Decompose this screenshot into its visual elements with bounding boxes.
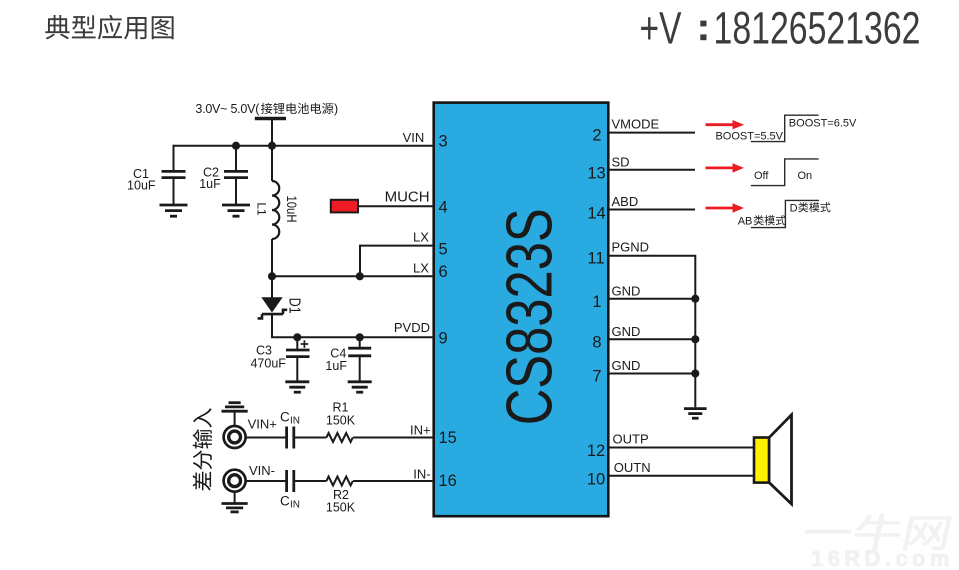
- wire LX pin6: [272, 275, 434, 277]
- svg-text:BOOST=5.5V: BOOST=5.5V: [715, 130, 783, 142]
- svg-text:VMODE: VMODE: [612, 117, 660, 132]
- pin labels left: [385, 130, 431, 481]
- label C2 1uF: [199, 166, 221, 192]
- connector VIN+: [224, 426, 246, 448]
- svg-text:5: 5: [439, 241, 448, 259]
- svg-text:12: 12: [587, 442, 605, 460]
- capacitor CIN bottom: [287, 470, 294, 492]
- wire power drop: [271, 119, 273, 146]
- wire GND pin8: [608, 338, 695, 340]
- junction dot C2/VIN: [232, 142, 240, 150]
- svg-text:18126521362: 18126521362: [714, 4, 921, 54]
- waveform ABD step: [751, 200, 819, 227]
- svg-text:VIN-: VIN-: [249, 463, 275, 478]
- svg-text:8: 8: [592, 334, 601, 352]
- wire PGND: [608, 256, 695, 407]
- capacitor C2: [224, 146, 248, 205]
- svg-text:1uF: 1uF: [199, 177, 221, 191]
- svg-text:3: 3: [439, 133, 448, 151]
- svg-text:150K: 150K: [326, 414, 356, 428]
- svg-text:ABD: ABD: [612, 194, 639, 209]
- svg-text:13: 13: [587, 165, 605, 183]
- pin numbers left: [439, 133, 457, 491]
- junction dot GND8: [691, 335, 699, 343]
- svg-text:LX: LX: [413, 230, 429, 245]
- capacitor C3 polarized: [286, 337, 310, 381]
- svg-text:L1: L1: [255, 202, 269, 216]
- svg-text:OUTP: OUTP: [613, 432, 649, 447]
- wire IN- row: [247, 480, 434, 482]
- svg-text:OUTN: OUTN: [614, 460, 651, 475]
- label C4 1uF: [325, 347, 347, 373]
- junction dot GND7: [691, 369, 699, 377]
- svg-text:PGND: PGND: [612, 240, 650, 255]
- ground under C2: [222, 205, 250, 216]
- resistor R1: [326, 433, 352, 442]
- svg-text:10uH: 10uH: [284, 195, 299, 222]
- svg-text:150K: 150K: [326, 501, 356, 515]
- svg-text:PVDD: PVDD: [394, 320, 430, 335]
- svg-text:2: 2: [592, 127, 601, 145]
- svg-text:SD: SD: [612, 155, 630, 170]
- ground above VIN+ (inverted): [222, 403, 248, 426]
- label R2 150K: [326, 488, 356, 515]
- svg-text:3.0V~ 5.0V(: 3.0V~ 5.0V(: [195, 102, 260, 116]
- label 差分输入: [193, 408, 212, 490]
- junction dot C3/PVDD: [293, 333, 301, 341]
- svg-text:BOOST=6.5V: BOOST=6.5V: [789, 117, 857, 129]
- svg-text:7: 7: [592, 368, 601, 386]
- svg-text:1: 1: [592, 293, 601, 311]
- svg-text:): ): [334, 102, 338, 116]
- wire LX pin5: [360, 245, 434, 247]
- phone number +V：18126521362: [640, 4, 921, 54]
- node VDD power rail bar: [255, 117, 286, 120]
- wire LX5 drop: [359, 245, 361, 277]
- svg-text:4: 4: [439, 199, 448, 217]
- wire PVDD pin9: [271, 336, 434, 338]
- svg-text:R1: R1: [333, 401, 349, 415]
- label R1 150K: [326, 401, 356, 428]
- label 3.0V~ 5.0V(接锂电池电源): [195, 102, 338, 116]
- ground GND net: [684, 409, 707, 419]
- svg-text:10: 10: [587, 471, 605, 489]
- wire IN+ row: [247, 437, 434, 439]
- label AB类模式: [738, 215, 786, 227]
- svg-text:IN: IN: [290, 416, 300, 427]
- svg-text:6: 6: [439, 263, 448, 281]
- ground under C1: [160, 205, 188, 216]
- pin numbers right: [587, 127, 606, 489]
- svg-text:D: D: [790, 202, 798, 214]
- junction dot L1/VIN: [268, 142, 276, 150]
- waveform VMODE step: [751, 115, 819, 141]
- capacitor C1: [162, 145, 186, 205]
- svg-text:GND: GND: [612, 284, 641, 299]
- svg-text:IN: IN: [290, 500, 300, 511]
- svg-text:IN-: IN-: [413, 467, 430, 482]
- wire OUTP: [608, 447, 754, 449]
- wire OUTN: [608, 475, 754, 477]
- plus mark C3: [301, 340, 309, 348]
- IC U1 CS8323S block: [434, 103, 609, 517]
- wire VMODE: [608, 132, 695, 134]
- capacitor C4: [348, 337, 371, 381]
- wire GND pin1: [608, 298, 695, 300]
- svg-text:16RD.com: 16RD.com: [811, 546, 954, 570]
- pin labels right: [612, 117, 660, 476]
- speaker LS1 body: [754, 438, 769, 483]
- label CIN bottom: [280, 494, 300, 511]
- svg-text:+V: +V: [640, 4, 682, 54]
- svg-text:14: 14: [587, 205, 605, 223]
- svg-text:C: C: [280, 494, 290, 509]
- arrow SD red: [706, 163, 745, 172]
- svg-text:9: 9: [439, 330, 448, 348]
- wire SD: [608, 169, 695, 171]
- speaker LS1 horn: [769, 415, 792, 504]
- waveform SD step: [751, 159, 819, 186]
- svg-text:LX: LX: [413, 260, 429, 275]
- arrow VMODE red: [706, 120, 745, 129]
- svg-text:AB: AB: [738, 215, 753, 227]
- junction dot C4/PVDD: [356, 333, 364, 341]
- ground under C4: [348, 382, 372, 392]
- svg-text:10uF: 10uF: [127, 179, 156, 193]
- connector VIN-: [224, 470, 246, 492]
- svg-text:470uF: 470uF: [250, 357, 286, 371]
- svg-text:On: On: [798, 170, 813, 182]
- svg-text:IN+: IN+: [410, 423, 431, 438]
- junction dot LX5/LX6: [356, 272, 364, 280]
- label D类模式: [790, 202, 831, 214]
- ground under C3: [285, 382, 309, 392]
- svg-text:C: C: [280, 410, 290, 425]
- wire GND pin7: [608, 373, 695, 375]
- svg-text:1uF: 1uF: [325, 359, 347, 373]
- title 典型应用图: [45, 15, 173, 40]
- resistor R2: [326, 477, 352, 486]
- svg-text:C3: C3: [256, 344, 272, 358]
- junction dot GND1: [691, 295, 699, 303]
- ground below VIN-: [222, 492, 248, 512]
- red flag MUCH: [331, 200, 358, 213]
- capacitor CIN top: [287, 427, 294, 449]
- inductor L1: [272, 146, 279, 277]
- wire ABD: [608, 209, 695, 211]
- arrow ABD red: [706, 203, 745, 212]
- watermark 一牛网: [802, 514, 952, 550]
- label C1 10uF: [127, 167, 156, 193]
- svg-text:11: 11: [587, 250, 604, 268]
- label C3 470uF: [250, 344, 286, 371]
- svg-text:VIN+: VIN+: [248, 417, 277, 432]
- svg-text:VIN: VIN: [403, 130, 425, 145]
- svg-text:15: 15: [439, 429, 457, 447]
- junction dot L1/D1/LX6: [268, 272, 276, 280]
- svg-text:MUCH: MUCH: [385, 188, 430, 205]
- svg-text:16: 16: [439, 472, 457, 490]
- svg-text:CS8323S: CS8323S: [493, 208, 565, 425]
- svg-text:D1: D1: [286, 298, 304, 314]
- svg-text:GND: GND: [612, 324, 641, 339]
- wire MUCH to pin 4: [358, 205, 434, 207]
- label CIN top: [280, 410, 300, 427]
- diode D1 schottky: [258, 276, 288, 338]
- svg-text:Off: Off: [754, 170, 769, 182]
- wire VIN rail: [174, 145, 434, 147]
- svg-text:GND: GND: [612, 358, 641, 373]
